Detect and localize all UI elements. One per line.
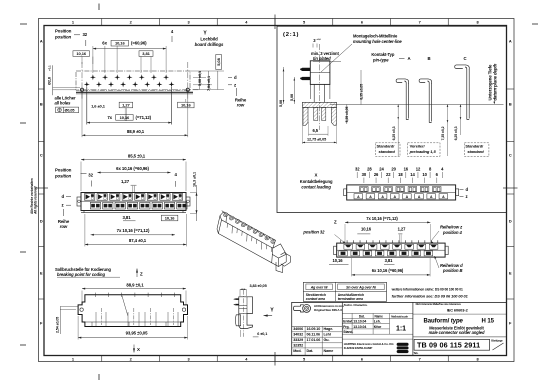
svg-text:7,84 ±0,1: 7,84 ±0,1: [207, 76, 211, 91]
svg-text:(2:1): (2:1): [283, 32, 299, 38]
svg-text:termination area: termination area: [338, 297, 363, 301]
svg-text:Reihe/row d: Reihe/row d: [440, 263, 463, 268]
svg-text:Lehl: Lehl: [324, 333, 331, 337]
svg-text:1,27: 1,27: [121, 179, 130, 184]
svg-text:26: 26: [374, 172, 379, 177]
svg-text:8,35 ±0,05: 8,35 ±0,05: [359, 84, 363, 100]
svg-text:X: X: [314, 172, 317, 177]
svg-text:6x: 6x: [102, 41, 107, 46]
svg-text:10,16: 10,16: [165, 215, 175, 220]
svg-text:33329: 33329: [293, 338, 303, 342]
svg-text:10,16: 10,16: [181, 102, 191, 107]
svg-text:1,27: 1,27: [122, 102, 130, 107]
svg-text:6,5: 6,5: [313, 128, 319, 133]
svg-text:B: B: [428, 56, 431, 61]
svg-text:z: z: [234, 82, 236, 87]
svg-text:Maßstab/scale: Maßstab/scale: [391, 314, 408, 318]
svg-text:IEC 60603-2: IEC 60603-2: [447, 308, 469, 313]
svg-text:3,81: 3,81: [122, 215, 131, 220]
svg-text:breaking point for coding: breaking point for coding: [57, 272, 105, 277]
svg-text:32: 32: [355, 167, 360, 172]
svg-text:mounting hole center-line: mounting hole center-line: [353, 39, 402, 44]
svg-text:13.10.04: 13.10.04: [353, 320, 366, 324]
svg-text:Name: Name: [324, 349, 334, 353]
svg-text:datum plane depth: datum plane depth: [492, 63, 497, 100]
svg-text:row: row: [60, 224, 68, 229]
svg-text:row: row: [237, 103, 245, 108]
svg-text:Y: Y: [270, 308, 274, 314]
svg-text:12: 12: [416, 167, 421, 172]
svg-text:17.01.06: 17.01.06: [307, 338, 321, 342]
svg-text:Original Size DIN A 3: Original Size DIN A 3: [314, 308, 342, 312]
svg-text:6x 10,16 (=60,96): 6x 10,16 (=60,96): [372, 268, 404, 273]
svg-text:D: D: [40, 218, 43, 223]
svg-text:all holes: all holes: [55, 100, 72, 105]
svg-text:85,5 ±0,1: 85,5 ±0,1: [128, 153, 146, 158]
svg-text:D: D: [509, 218, 512, 223]
svg-text:A: A: [408, 56, 411, 61]
svg-text:Ø0,05: Ø0,05: [65, 108, 75, 112]
svg-text:6,25 ±0,3: 6,25 ±0,3: [392, 126, 396, 140]
svg-text:A: A: [509, 38, 512, 43]
svg-text:Z: Z: [140, 271, 143, 276]
svg-text:X: X: [137, 347, 140, 352]
svg-text:+0,1: +0,1: [48, 65, 52, 71]
svg-text:Techn. Charactm.: Techn. Charactm.: [344, 303, 368, 307]
svg-text:C: C: [40, 152, 43, 157]
svg-text:10,16: 10,16: [115, 41, 125, 46]
svg-text:A: A: [40, 38, 43, 43]
svg-text:3,83 ±0,05: 3,83 ±0,05: [250, 284, 267, 288]
svg-text:Standard/: Standard/: [465, 144, 484, 149]
svg-text:1:1: 1:1: [396, 325, 406, 332]
svg-text:Ag over Ni: Ag over Ni: [310, 285, 329, 289]
svg-text:12,75 ±0,05: 12,75 ±0,05: [307, 137, 326, 141]
svg-text:Voreiler/: Voreiler/: [410, 144, 426, 149]
svg-text:87,4 ±0,1: 87,4 ±0,1: [129, 238, 147, 243]
svg-text:C: C: [509, 152, 512, 157]
svg-text:88,9 ±0,1: 88,9 ±0,1: [127, 129, 145, 134]
svg-text:D-32339 ESPELKAMP: D-32339 ESPELKAMP: [344, 346, 373, 350]
svg-text:7: 7: [419, 20, 421, 25]
svg-text:Kontakt-Typ: Kontakt-Typ: [371, 52, 395, 57]
svg-text:Entwf.: Entwf.: [343, 320, 353, 324]
svg-text:6,25 ±0,3: 6,25 ±0,3: [454, 126, 458, 140]
svg-text:Bauform/: Bauform/: [424, 319, 450, 325]
svg-text:10,16: 10,16: [120, 115, 130, 120]
svg-text:3,81: 3,81: [142, 51, 150, 56]
svg-text:20: 20: [391, 167, 396, 172]
svg-text:1,27: 1,27: [398, 227, 407, 232]
svg-text:6 ±0,1: 6 ±0,1: [257, 332, 267, 336]
svg-text:Dat.: Dat.: [307, 349, 314, 353]
svg-text:10,16: 10,16: [76, 51, 86, 56]
svg-text:10,16: 10,16: [361, 227, 372, 232]
svg-text:34006: 34006: [293, 327, 303, 331]
svg-text:6x 10,16 (=60,96): 6x 10,16 (=60,96): [116, 166, 149, 171]
svg-text:preloading 1,5: preloading 1,5: [409, 149, 437, 154]
svg-text:Kfoe: Kfoe: [374, 325, 382, 329]
svg-text:16: 16: [404, 167, 409, 172]
svg-text:88,9 ±0,1: 88,9 ±0,1: [126, 282, 144, 287]
svg-text:C: C: [464, 56, 467, 61]
svg-text:position B: position B: [442, 268, 463, 273]
svg-text:2,54 ±0,05: 2,54 ±0,05: [56, 317, 60, 333]
svg-text:Name: Name: [375, 314, 384, 318]
svg-text:Mod.: Mod.: [293, 349, 301, 353]
svg-text:Sn over Ag over Ni: Sn over Ag over Ni: [346, 285, 377, 289]
svg-text:HARTING Electronics GmbH & Co.: HARTING Electronics GmbH & Co. KG: [344, 342, 395, 346]
svg-text:22: 22: [386, 172, 391, 177]
svg-text:z: z: [62, 203, 64, 208]
svg-text:Blatt/page: Blatt/page: [491, 340, 503, 343]
svg-text:5,08: 5,08: [216, 57, 221, 65]
svg-text:14: 14: [410, 172, 415, 177]
svg-text:further information see: DS 09: further information see: DS 09 06 100 00…: [392, 293, 468, 298]
svg-text:position: position: [54, 35, 72, 40]
svg-text:Frg.: Frg.: [343, 325, 349, 329]
svg-text:standard: standard: [467, 149, 484, 154]
svg-text:TB 09 06 115 2911: TB 09 06 115 2911: [417, 340, 480, 349]
svg-text:13.10.04: 13.10.04: [353, 325, 366, 329]
svg-text:16.09.10: 16.09.10: [307, 327, 321, 331]
svg-text:type: type: [451, 319, 464, 325]
svg-text:Stand.: Stand.: [343, 330, 353, 334]
svg-text:B: B: [509, 101, 512, 106]
svg-text:Ø2,8: Ø2,8: [48, 77, 52, 85]
svg-text:Standard/: Standard/: [377, 144, 396, 149]
svg-text:board drillings: board drillings: [195, 42, 224, 47]
svg-text:28: 28: [367, 167, 372, 172]
svg-text:Z: Z: [334, 219, 337, 224]
svg-text:Leh.: Leh.: [374, 320, 381, 324]
svg-text:pin-type: pin-type: [372, 57, 389, 62]
svg-text:06.11.06: 06.11.06: [307, 333, 321, 337]
svg-text:Dat.: Dat.: [359, 314, 365, 318]
svg-text:B: B: [40, 101, 43, 106]
svg-text:weitere Informationen siehe: D: weitere Informationen siehe: DS 09 06 10…: [391, 288, 463, 292]
svg-text:H 15: H 15: [482, 319, 495, 325]
svg-text:Position: Position: [55, 29, 72, 34]
svg-text:5,08 ±0,1: 5,08 ±0,1: [198, 71, 202, 86]
svg-text:10,16: 10,16: [333, 258, 344, 263]
svg-text:position: position: [54, 173, 72, 178]
svg-text:18: 18: [398, 172, 403, 177]
svg-text:standard: standard: [379, 149, 396, 154]
svg-text:24: 24: [379, 167, 384, 172]
svg-text:7x 10,16 (=71,12): 7x 10,16 (=71,12): [117, 228, 150, 233]
svg-text:All rights reserved: All rights reserved: [33, 186, 37, 215]
svg-text:34032: 34032: [293, 333, 303, 337]
svg-text:5,35 ±0,05: 5,35 ±0,05: [345, 107, 349, 123]
svg-text:1,6 ±0,1: 1,6 ±0,1: [91, 103, 106, 108]
svg-text:Tab.: Tab.: [414, 351, 419, 355]
svg-text:32: 32: [88, 173, 93, 178]
svg-text:3,81: 3,81: [385, 258, 394, 263]
svg-text:10: 10: [422, 172, 427, 177]
svg-text:contact area: contact area: [306, 297, 325, 301]
svg-text:32352: 32352: [293, 343, 303, 347]
svg-text:contact loading: contact loading: [301, 184, 331, 189]
svg-text:5,08: 5,08: [290, 94, 294, 101]
svg-text:(=60,96): (=60,96): [131, 41, 147, 46]
svg-text:16,3 ±0,1: 16,3 ±0,1: [192, 172, 196, 187]
svg-text:Nicht tolerierte Maße/free siz: Nicht tolerierte Maße/free size toleranc…: [416, 303, 462, 306]
svg-text:7x: 7x: [107, 115, 112, 120]
svg-text:Gu.: Gu.: [324, 338, 330, 342]
svg-text:position 4: position 4: [442, 230, 463, 235]
svg-text:93,95 ±0,05: 93,95 ±0,05: [126, 331, 148, 336]
svg-text:7x 10,16 (=71,12): 7x 10,16 (=71,12): [366, 216, 398, 221]
svg-text:position 32: position 32: [302, 230, 325, 235]
svg-text:32: 32: [83, 32, 88, 37]
svg-text:(=71,12): (=71,12): [136, 115, 152, 120]
svg-text:Position: Position: [55, 167, 72, 172]
svg-text:z: z: [466, 194, 468, 199]
svg-text:30: 30: [362, 172, 367, 177]
svg-text:5,08: 5,08: [279, 100, 283, 107]
svg-text:7: 7: [419, 356, 421, 361]
svg-text:7,35 ±0,2: 7,35 ±0,2: [441, 126, 445, 140]
svg-text:Hage.: Hage.: [324, 327, 334, 331]
svg-text:male connector solder angled: male connector solder angled: [429, 330, 485, 335]
